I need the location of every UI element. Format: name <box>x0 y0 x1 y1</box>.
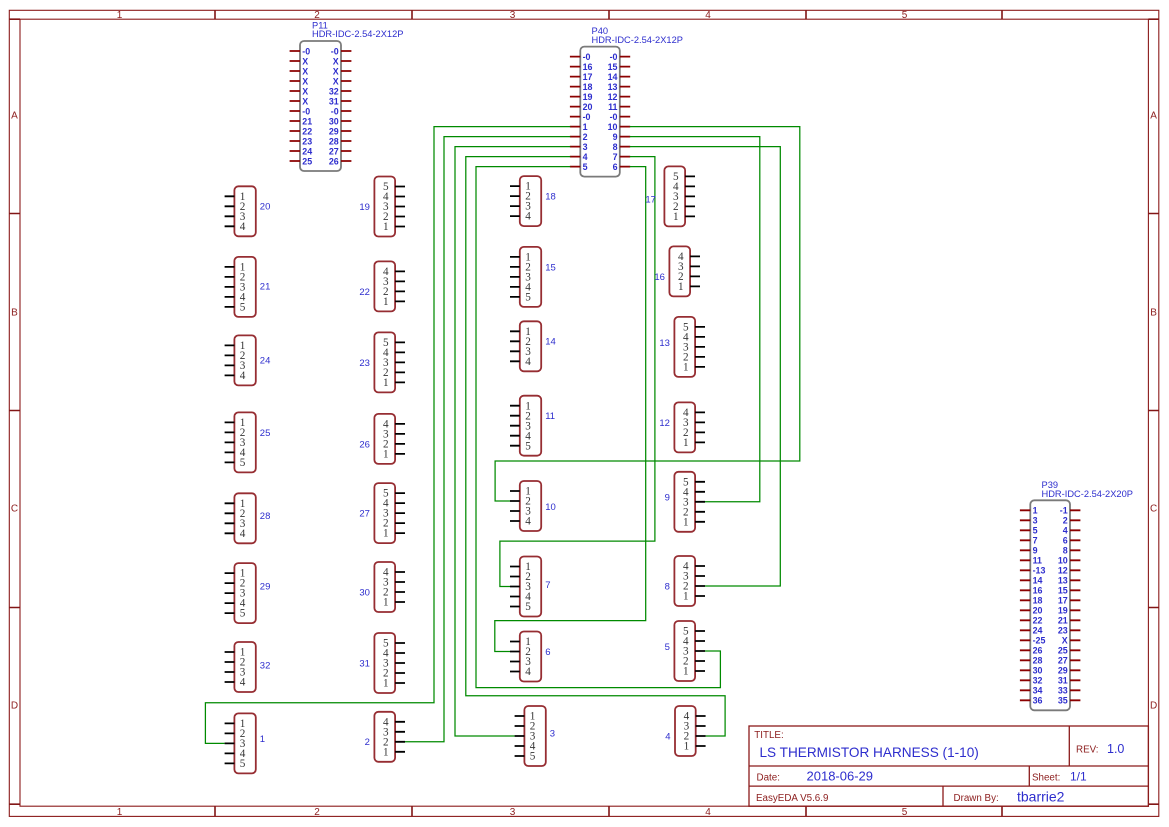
svg-text:1: 1 <box>683 516 689 528</box>
wire P40 pin4 to connector 4 pin2 <box>466 157 725 736</box>
svg-text:4: 4 <box>583 152 588 162</box>
svg-text:30: 30 <box>329 116 339 126</box>
svg-text:5: 5 <box>525 292 531 304</box>
connector 17 (5-pin) <box>645 166 695 226</box>
svg-text:5: 5 <box>1033 526 1038 536</box>
svg-text:A: A <box>11 111 18 122</box>
svg-text:TITLE:: TITLE: <box>754 730 783 741</box>
svg-text:D: D <box>1150 701 1157 712</box>
svg-text:14: 14 <box>545 337 556 348</box>
svg-text:15: 15 <box>608 62 618 72</box>
svg-text:B: B <box>11 308 18 319</box>
svg-text:23: 23 <box>302 136 312 146</box>
svg-text:18: 18 <box>1033 596 1043 606</box>
wire P40 pin1 to connector 1 pin3 <box>205 127 570 744</box>
svg-text:-0: -0 <box>302 46 310 56</box>
svg-text:31: 31 <box>359 658 370 669</box>
svg-text:X: X <box>333 66 339 76</box>
svg-text:25: 25 <box>260 428 271 439</box>
connector 31 (5-pin) <box>359 633 405 693</box>
svg-text:1: 1 <box>383 449 389 461</box>
svg-text:1: 1 <box>383 528 389 540</box>
svg-text:REV:: REV: <box>1076 745 1099 756</box>
svg-text:1: 1 <box>583 122 588 132</box>
svg-text:2: 2 <box>314 10 320 21</box>
svg-text:9: 9 <box>613 132 618 142</box>
svg-text:16: 16 <box>583 62 593 72</box>
connector 14 (4-pin) <box>510 321 556 371</box>
svg-text:24: 24 <box>260 356 271 367</box>
connector P40 HDR-IDC-2.54-2X12P <box>570 26 683 177</box>
svg-text:4: 4 <box>665 731 670 742</box>
svg-text:21: 21 <box>260 282 271 293</box>
svg-text:HDR-IDC-2.54-2X20P: HDR-IDC-2.54-2X20P <box>1042 489 1133 499</box>
connector 22 (4-pin) <box>359 261 405 311</box>
connector 15 (5-pin) <box>510 247 556 307</box>
svg-text:9: 9 <box>1033 546 1038 556</box>
title block dividers <box>749 726 1148 806</box>
svg-text:1: 1 <box>683 591 689 603</box>
svg-text:36: 36 <box>1033 696 1043 706</box>
svg-text:28: 28 <box>329 136 339 146</box>
svg-text:12: 12 <box>659 418 670 429</box>
svg-text:30: 30 <box>1033 666 1043 676</box>
svg-text:X: X <box>333 76 339 86</box>
svg-text:17: 17 <box>583 72 593 82</box>
svg-text:15: 15 <box>545 262 556 273</box>
svg-text:19: 19 <box>359 202 370 213</box>
svg-text:8: 8 <box>665 581 670 592</box>
svg-text:11: 11 <box>545 411 555 422</box>
svg-text:13: 13 <box>1058 576 1068 586</box>
svg-text:1: 1 <box>117 807 123 818</box>
svg-text:8: 8 <box>613 142 618 152</box>
svg-text:C: C <box>11 504 18 515</box>
svg-text:tbarrie2: tbarrie2 <box>1017 789 1065 805</box>
connector 1 (5-pin) <box>225 713 265 773</box>
svg-text:1: 1 <box>684 741 690 753</box>
svg-text:17: 17 <box>645 194 656 205</box>
svg-text:17: 17 <box>1058 596 1068 606</box>
svg-text:16: 16 <box>1033 586 1043 596</box>
svg-text:1: 1 <box>383 746 389 758</box>
svg-text:1: 1 <box>673 211 679 223</box>
svg-text:1: 1 <box>383 221 389 233</box>
svg-text:2: 2 <box>365 737 370 748</box>
connector 6 (4-pin) <box>510 632 550 682</box>
connector 20 (4-pin) <box>225 186 271 236</box>
connector 8 (4-pin) <box>665 556 705 606</box>
connector 3 (5-pin) <box>515 706 555 766</box>
svg-text:B: B <box>1150 308 1157 319</box>
svg-text:10: 10 <box>545 502 556 513</box>
svg-text:1: 1 <box>383 597 389 609</box>
wire P40 pin10 to connector 10 pin2 <box>495 127 800 501</box>
wire P40 pin7 to connector 7 pin3 <box>500 157 655 587</box>
wire P40 pin6 to connector 6 pin2 <box>495 167 646 652</box>
connector 13 (5-pin) <box>659 317 705 377</box>
svg-text:7: 7 <box>1033 536 1038 546</box>
wire P40 pin3 to connector 3 pin3 <box>455 147 570 736</box>
svg-text:5: 5 <box>240 302 246 314</box>
svg-text:4: 4 <box>1063 526 1068 536</box>
title block border <box>749 726 1148 806</box>
svg-text:6: 6 <box>613 162 618 172</box>
svg-text:22: 22 <box>1033 616 1043 626</box>
svg-text:5: 5 <box>525 601 531 613</box>
svg-text:1: 1 <box>683 666 689 678</box>
connector 26 (4-pin) <box>359 414 405 464</box>
svg-text:EasyEDA V5.6.9: EasyEDA V5.6.9 <box>756 793 828 804</box>
svg-text:2: 2 <box>1063 516 1068 526</box>
svg-text:-0: -0 <box>583 52 591 62</box>
svg-text:5: 5 <box>902 807 908 818</box>
svg-text:-0: -0 <box>610 52 618 62</box>
svg-text:16: 16 <box>654 272 665 283</box>
connector 5 (5-pin) <box>665 621 705 681</box>
svg-text:28: 28 <box>260 511 271 522</box>
svg-text:5: 5 <box>665 642 670 653</box>
connector 18 (4-pin) <box>510 176 556 226</box>
svg-text:1.0: 1.0 <box>1107 742 1124 756</box>
svg-text:1: 1 <box>117 10 123 21</box>
svg-text:Drawn By:: Drawn By: <box>954 793 999 804</box>
wire P40 pin8 to connector 8 pin2 <box>630 147 781 586</box>
svg-text:33: 33 <box>1058 686 1068 696</box>
connector 19 (5-pin) <box>359 177 405 237</box>
svg-text:30: 30 <box>359 587 370 598</box>
svg-text:-0: -0 <box>302 106 310 116</box>
svg-text:Sheet:: Sheet: <box>1032 772 1060 783</box>
svg-text:5: 5 <box>583 162 588 172</box>
svg-text:-0: -0 <box>331 106 339 116</box>
svg-text:27: 27 <box>1058 656 1068 666</box>
svg-text:8: 8 <box>1063 546 1068 556</box>
svg-text:4: 4 <box>240 221 246 233</box>
svg-text:29: 29 <box>329 126 339 136</box>
svg-text:12: 12 <box>608 92 618 102</box>
svg-text:4: 4 <box>525 516 531 528</box>
svg-text:D: D <box>11 701 18 712</box>
svg-text:25: 25 <box>1058 646 1068 656</box>
svg-text:31: 31 <box>329 96 339 106</box>
svg-text:1: 1 <box>1033 506 1038 516</box>
svg-text:-13: -13 <box>1033 566 1046 576</box>
svg-text:1: 1 <box>383 377 389 389</box>
svg-text:15: 15 <box>1058 586 1068 596</box>
svg-text:21: 21 <box>1058 616 1068 626</box>
svg-text:3: 3 <box>510 10 516 21</box>
connector 16 (4-pin) <box>654 246 700 296</box>
connector 10 (4-pin) <box>510 481 556 531</box>
wire P40 pin5 to connector 5 pin3 <box>476 167 720 688</box>
svg-text:1: 1 <box>683 437 689 449</box>
svg-text:24: 24 <box>1033 626 1043 636</box>
svg-text:HDR-IDC-2.54-2X12P: HDR-IDC-2.54-2X12P <box>592 35 683 45</box>
svg-text:14: 14 <box>608 72 618 82</box>
svg-text:3: 3 <box>510 807 516 818</box>
connector 11 (5-pin) <box>510 396 555 456</box>
svg-text:20: 20 <box>1033 606 1043 616</box>
svg-text:22: 22 <box>359 287 370 298</box>
svg-text:27: 27 <box>329 146 339 156</box>
svg-text:26: 26 <box>359 439 370 450</box>
svg-text:6: 6 <box>1063 536 1068 546</box>
connector 23 (5-pin) <box>359 332 405 392</box>
svg-text:X: X <box>1062 636 1068 646</box>
svg-text:31: 31 <box>1058 676 1068 686</box>
svg-text:C: C <box>1150 504 1157 515</box>
svg-text:14: 14 <box>1033 576 1043 586</box>
svg-text:28: 28 <box>1033 656 1043 666</box>
svg-text:2: 2 <box>314 807 320 818</box>
svg-text:4: 4 <box>240 528 246 540</box>
connector 2 (4-pin) <box>365 712 405 762</box>
connector 12 (4-pin) <box>659 402 705 452</box>
svg-text:32: 32 <box>329 86 339 96</box>
svg-text:1: 1 <box>260 734 265 745</box>
connector 4 (4-pin) <box>665 706 705 756</box>
svg-text:19: 19 <box>583 92 593 102</box>
svg-text:25: 25 <box>302 156 312 166</box>
svg-text:X: X <box>302 96 308 106</box>
svg-text:11: 11 <box>1033 556 1042 566</box>
wire P40 pin2 to connector 2 pin2 <box>405 137 570 742</box>
svg-text:X: X <box>302 56 308 66</box>
svg-text:10: 10 <box>608 122 618 132</box>
svg-text:23: 23 <box>1058 626 1068 636</box>
svg-text:-25: -25 <box>1033 636 1046 646</box>
svg-text:4: 4 <box>705 10 711 21</box>
svg-text:5: 5 <box>240 758 246 770</box>
svg-text:-0: -0 <box>610 112 618 122</box>
connector 30 (4-pin) <box>359 562 405 612</box>
svg-text:HDR-IDC-2.54-2X12P: HDR-IDC-2.54-2X12P <box>312 29 403 39</box>
svg-text:4: 4 <box>525 211 531 223</box>
svg-text:-1: -1 <box>1060 506 1068 516</box>
wire P40 pin9 to connector 9 pin3 <box>630 137 760 502</box>
svg-text:3: 3 <box>583 142 588 152</box>
svg-text:12: 12 <box>1058 566 1068 576</box>
svg-text:5: 5 <box>525 440 531 452</box>
svg-text:35: 35 <box>1058 696 1068 706</box>
connector 25 (5-pin) <box>225 412 271 472</box>
connector P39 HDR-IDC-2.54-2X20P <box>1020 480 1133 710</box>
svg-text:13: 13 <box>608 82 618 92</box>
svg-text:23: 23 <box>359 358 370 369</box>
svg-text:26: 26 <box>329 156 339 166</box>
svg-text:7: 7 <box>613 152 618 162</box>
connector 28 (4-pin) <box>225 493 271 543</box>
svg-text:2: 2 <box>583 132 588 142</box>
svg-text:X: X <box>333 56 339 66</box>
svg-text:2018-06-29: 2018-06-29 <box>807 769 874 784</box>
connector 29 (5-pin) <box>225 563 271 623</box>
connector 27 (5-pin) <box>359 483 405 543</box>
svg-text:20: 20 <box>583 102 593 112</box>
svg-text:32: 32 <box>1033 676 1043 686</box>
svg-text:4: 4 <box>240 370 246 382</box>
svg-text:4: 4 <box>525 356 531 368</box>
svg-text:4: 4 <box>705 807 711 818</box>
svg-text:-0: -0 <box>331 46 339 56</box>
svg-text:5: 5 <box>530 751 536 763</box>
connector 32 (4-pin) <box>225 642 271 692</box>
svg-text:19: 19 <box>1058 606 1068 616</box>
svg-text:7: 7 <box>545 580 550 591</box>
svg-text:18: 18 <box>545 192 556 203</box>
svg-text:X: X <box>302 76 308 86</box>
svg-text:6: 6 <box>545 647 550 658</box>
svg-text:21: 21 <box>302 116 312 126</box>
connector 7 (5-pin) <box>510 557 550 617</box>
svg-text:1: 1 <box>683 362 689 374</box>
svg-text:Date:: Date: <box>757 772 780 783</box>
connector 21 (5-pin) <box>225 257 271 317</box>
svg-text:26: 26 <box>1033 646 1043 656</box>
connector 24 (4-pin) <box>225 335 271 385</box>
svg-text:1: 1 <box>678 281 684 293</box>
svg-text:27: 27 <box>359 509 370 520</box>
svg-text:-0: -0 <box>583 112 591 122</box>
svg-text:29: 29 <box>260 581 271 592</box>
svg-text:4: 4 <box>525 666 531 678</box>
svg-text:20: 20 <box>260 202 271 213</box>
svg-text:5: 5 <box>902 10 908 21</box>
svg-text:34: 34 <box>1033 686 1043 696</box>
svg-text:X: X <box>302 86 308 96</box>
svg-text:29: 29 <box>1058 666 1068 676</box>
svg-text:1: 1 <box>383 296 389 308</box>
svg-text:X: X <box>302 66 308 76</box>
svg-text:22: 22 <box>302 126 312 136</box>
svg-text:9: 9 <box>665 492 670 503</box>
svg-text:1/1: 1/1 <box>1070 770 1087 784</box>
connector 9 (5-pin) <box>665 472 705 532</box>
svg-text:3: 3 <box>550 728 555 739</box>
svg-text:10: 10 <box>1058 556 1068 566</box>
svg-text:A: A <box>1150 111 1157 122</box>
svg-text:18: 18 <box>583 82 593 92</box>
svg-text:32: 32 <box>260 661 271 672</box>
svg-text:24: 24 <box>302 146 312 156</box>
svg-text:3: 3 <box>1033 516 1038 526</box>
svg-text:5: 5 <box>240 608 246 620</box>
svg-text:5: 5 <box>240 457 246 469</box>
svg-text:1: 1 <box>383 678 389 690</box>
svg-text:13: 13 <box>659 338 670 349</box>
svg-text:11: 11 <box>608 102 617 112</box>
svg-text:LS THERMISTOR HARNESS (1-10): LS THERMISTOR HARNESS (1-10) <box>760 745 979 760</box>
svg-text:4: 4 <box>240 677 246 689</box>
connector P11 HDR-IDC-2.54-2X12P <box>290 20 404 171</box>
